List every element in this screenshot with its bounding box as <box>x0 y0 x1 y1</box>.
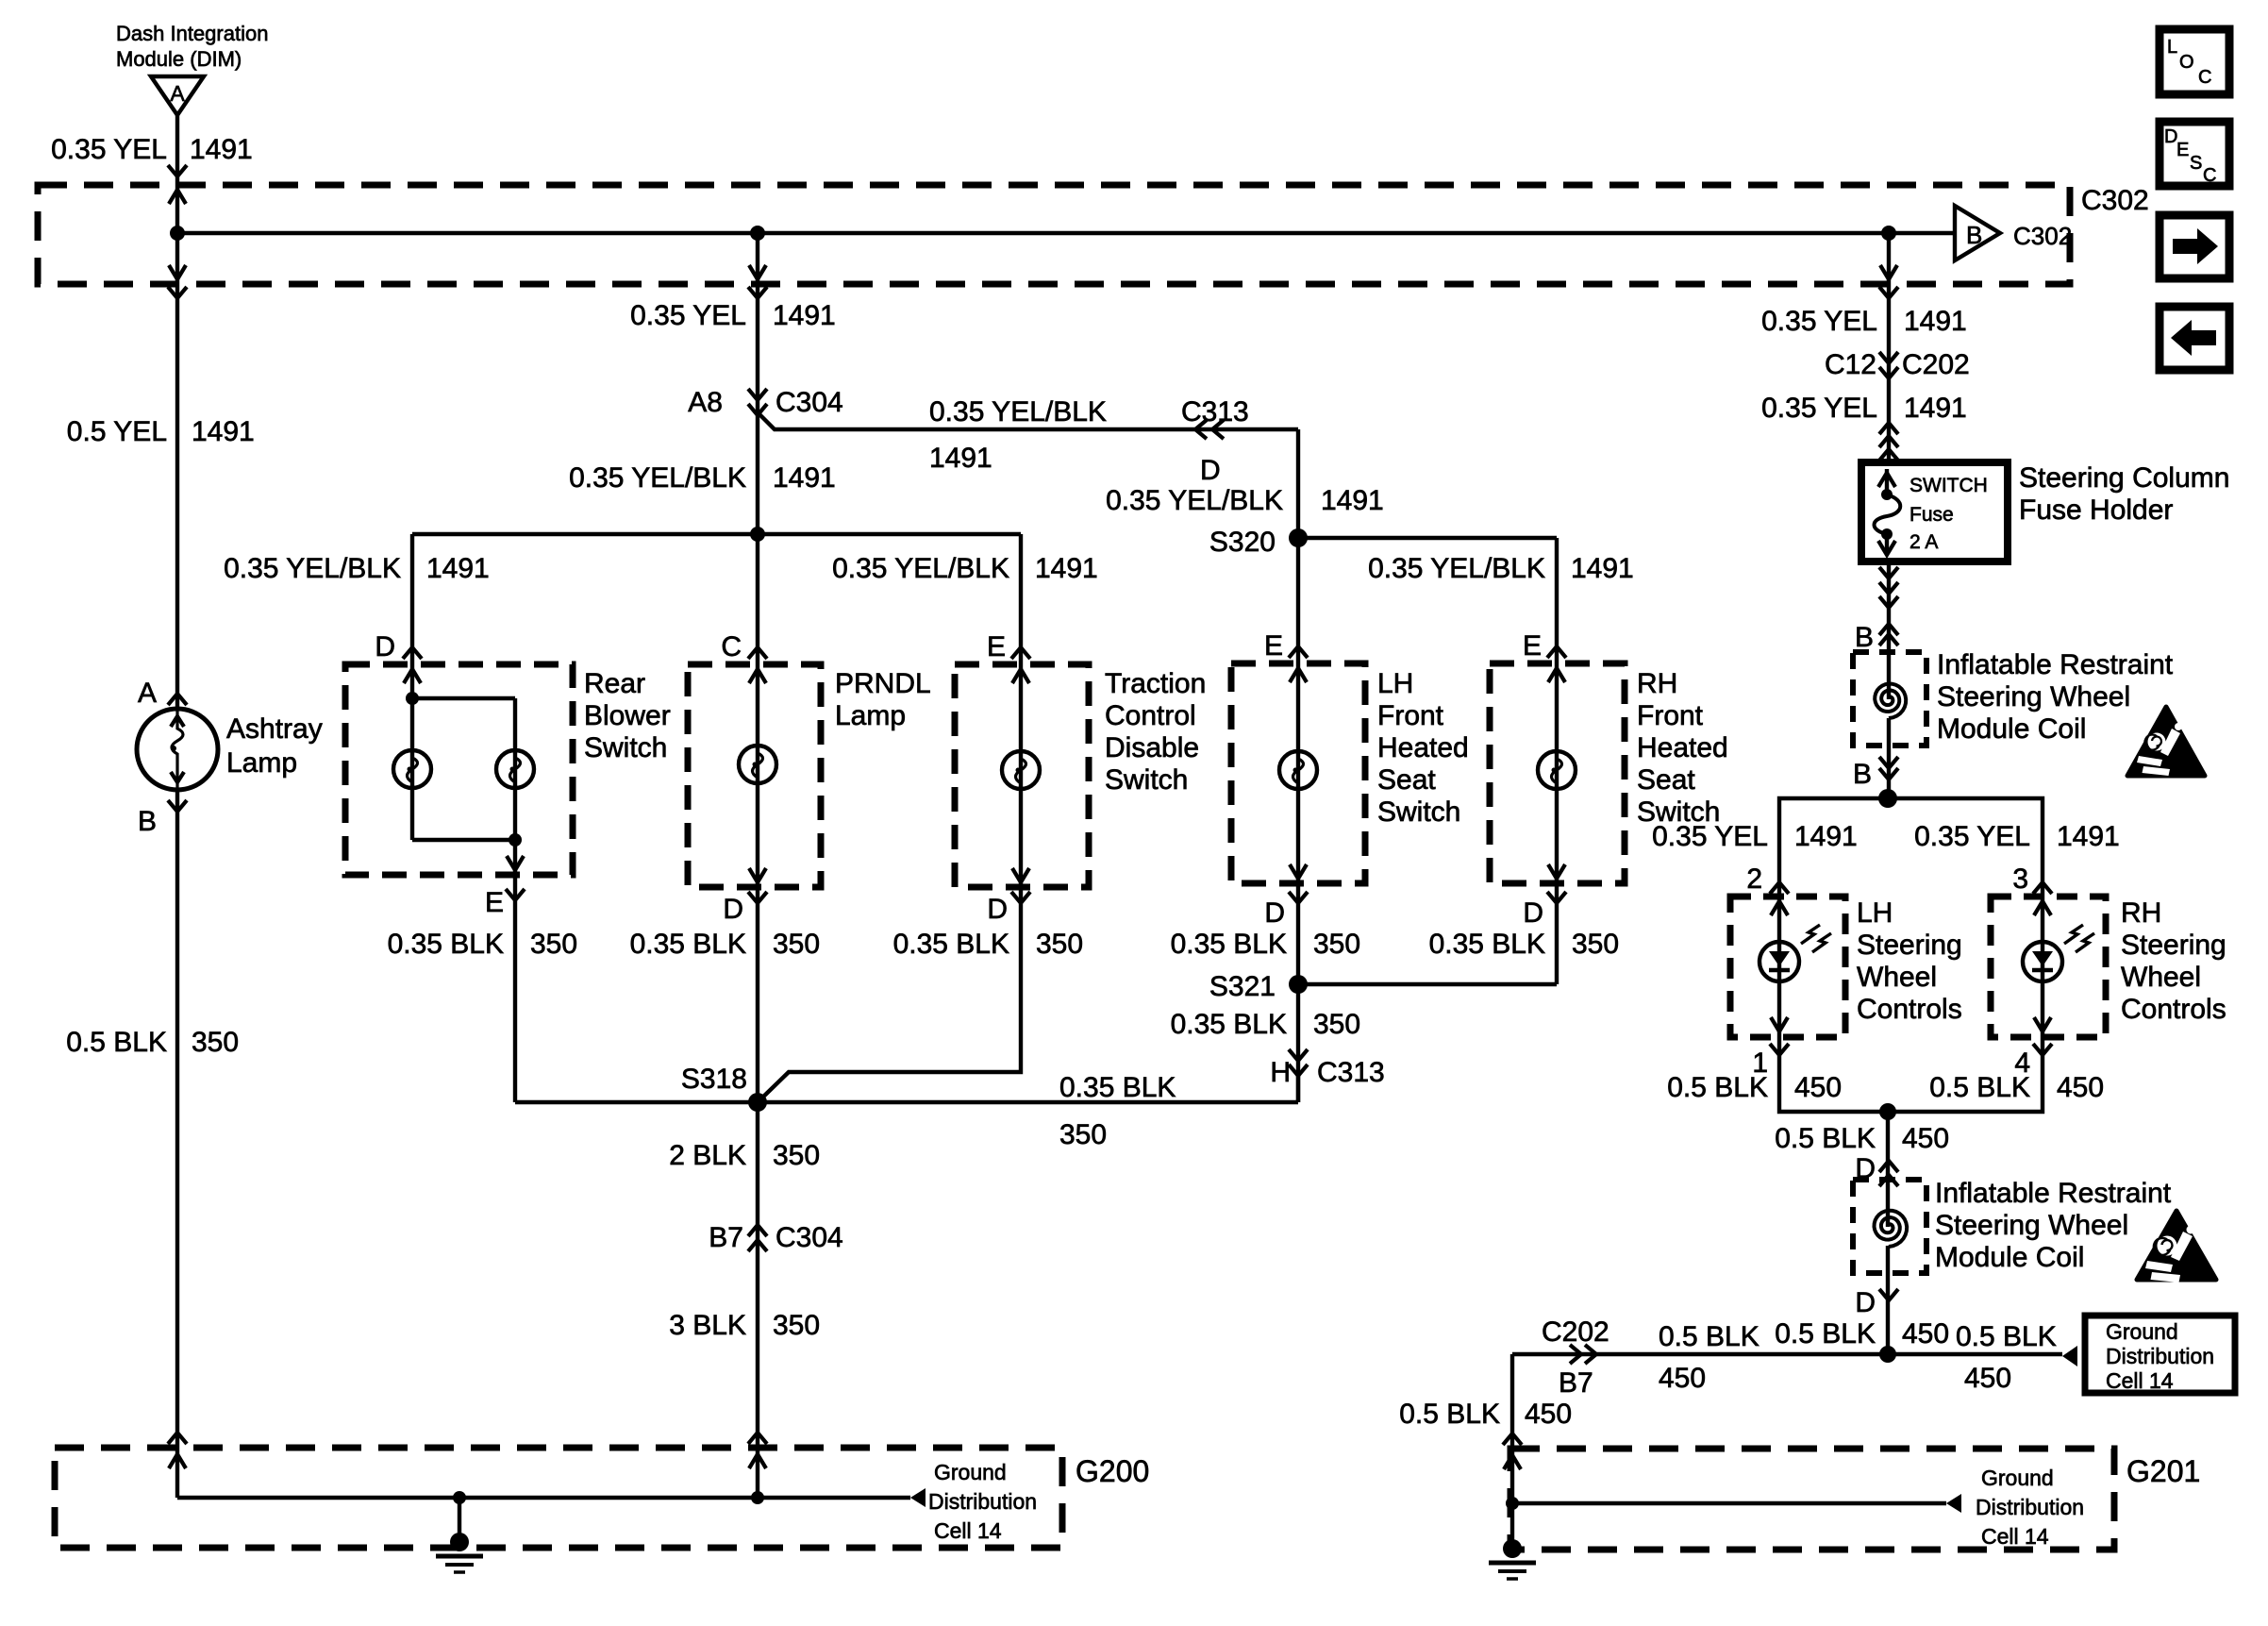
node G200 center join <box>751 1491 764 1504</box>
inflatable restraint coil box top <box>1853 652 1926 746</box>
svg-text:0.35 BLK: 0.35 BLK <box>1059 1072 1176 1103</box>
svg-text:0.5 BLK: 0.5 BLK <box>1667 1072 1768 1103</box>
svg-text:0.35 BLK: 0.35 BLK <box>893 929 1009 960</box>
traction control disable switch dashed box <box>955 664 1089 887</box>
svg-text:0.35 YEL: 0.35 YEL <box>1761 393 1877 424</box>
connector triangle A (DIM pin A) <box>151 76 204 115</box>
svg-text:Controls: Controls <box>2121 994 2226 1025</box>
wire through RH control <box>2041 897 2044 1037</box>
chevron below C302 at x803 <box>748 287 767 298</box>
svg-text:S320: S320 <box>1209 527 1276 558</box>
wire through PRNDL <box>756 664 759 887</box>
wire entry G200 left <box>175 1448 179 1498</box>
wire C313 down to S320 <box>1296 429 1300 538</box>
svg-text:H: H <box>1270 1057 1291 1088</box>
node junction right branch <box>1881 226 1896 241</box>
svg-text:Control: Control <box>1105 700 1196 731</box>
svg-text:1491: 1491 <box>929 443 992 474</box>
svg-text:Heated: Heated <box>1377 732 1469 763</box>
wire long ground bus to S318 <box>515 1100 1298 1104</box>
svg-text:Seat: Seat <box>1377 764 1436 796</box>
svg-text:C313: C313 <box>1181 396 1249 427</box>
svg-text:1491: 1491 <box>190 134 253 165</box>
wire bus G201 <box>1512 1501 1946 1505</box>
PRNDL lamp dashed box <box>688 664 821 887</box>
svg-text:Module Coil: Module Coil <box>1937 713 2086 745</box>
node ground bus junction right <box>1879 1346 1896 1363</box>
svg-text:B: B <box>1855 622 1874 653</box>
connector chevron into C302 <box>168 165 187 176</box>
svg-text:0.35 BLK: 0.35 BLK <box>1171 1009 1287 1040</box>
lamp PRNDL <box>739 746 776 783</box>
LED LH control <box>1759 942 1799 981</box>
LOC legend box <box>2160 29 2229 94</box>
wire down to RH heated seat E <box>1555 538 1559 663</box>
ashtray lamp <box>137 709 218 790</box>
wire traction D down <box>758 887 1021 1102</box>
svg-text:G200: G200 <box>1076 1454 1149 1488</box>
svg-text:350: 350 <box>1313 1009 1360 1040</box>
svg-text:1491: 1491 <box>1321 485 1384 516</box>
svg-text:Module Coil: Module Coil <box>1935 1242 2084 1273</box>
svg-text:2 BLK: 2 BLK <box>669 1140 746 1171</box>
wire entry G200 center <box>756 1448 759 1498</box>
svg-text:Cell 14: Cell 14 <box>934 1518 1002 1543</box>
svg-text:450: 450 <box>1902 1318 1949 1349</box>
wire C302 to fuse holder <box>1887 284 1891 462</box>
svg-text:Steering Wheel: Steering Wheel <box>1937 681 2130 712</box>
svg-text:C: C <box>2198 67 2211 88</box>
svg-text:C304: C304 <box>775 387 843 418</box>
svg-text:450: 450 <box>1525 1399 1572 1430</box>
fuse SWITCH Fuse 2A <box>1885 469 1889 492</box>
wire controls to junction <box>1779 1037 2043 1112</box>
svg-text:E: E <box>2176 140 2189 160</box>
svg-text:Distribution: Distribution <box>2106 1344 2214 1368</box>
connector C313 chevrons <box>1195 420 1207 439</box>
ground symbol G201 <box>1510 1503 1514 1545</box>
lamp LH seat <box>1279 751 1317 789</box>
connector C302 dashed box <box>38 185 2070 284</box>
svg-text:D: D <box>375 631 395 662</box>
svg-text:Inflatable Restraint: Inflatable Restraint <box>1935 1178 2172 1209</box>
RH steering wheel controls dashed box <box>1991 897 2106 1037</box>
svg-text:B7: B7 <box>709 1222 743 1253</box>
node splice of branch <box>750 527 765 542</box>
svg-text:0.35 YEL/BLK: 0.35 YEL/BLK <box>1106 485 1283 516</box>
coil spiral top <box>1875 684 1906 719</box>
svg-text:0.35 YEL/BLK: 0.35 YEL/BLK <box>224 553 401 584</box>
node junction at DIM wire <box>175 185 179 284</box>
svg-text:C302: C302 <box>2013 222 2072 250</box>
wire S321 to RH seat wire <box>1298 982 1557 986</box>
svg-text:D: D <box>723 894 743 925</box>
svg-text:Module (DIM): Module (DIM) <box>116 47 242 71</box>
LED RH control <box>2023 942 2062 981</box>
svg-text:LH: LH <box>1857 897 1893 929</box>
wire branch right to traction switch <box>758 532 1021 536</box>
wire bottom inner rear blower <box>412 838 515 842</box>
svg-text:O: O <box>2179 52 2194 73</box>
svg-text:Blower: Blower <box>584 700 671 731</box>
svg-text:350: 350 <box>773 1310 820 1341</box>
LH steering wheel controls dashed box <box>1730 897 1845 1037</box>
wire fuse to coil <box>1887 562 1891 699</box>
svg-text:E: E <box>987 631 1006 662</box>
svg-text:Inflatable Restraint: Inflatable Restraint <box>1937 649 2174 680</box>
svg-text:Switch: Switch <box>1105 764 1188 796</box>
wire down to rear blower D <box>410 534 414 664</box>
node top junction rear blower <box>406 692 419 705</box>
svg-text:1491: 1491 <box>773 300 836 331</box>
node splice steering wheel controls feed <box>1878 789 1897 808</box>
node G201 junction <box>1506 1497 1519 1510</box>
svg-text:450: 450 <box>2057 1072 2104 1103</box>
svg-text:3: 3 <box>2012 863 2028 895</box>
svg-text:0.35 YEL/BLK: 0.35 YEL/BLK <box>569 462 746 494</box>
lamp RH seat <box>1538 751 1576 789</box>
svg-text:C: C <box>2203 165 2216 186</box>
svg-text:B7: B7 <box>1559 1367 1593 1399</box>
svg-text:Controls: Controls <box>1857 994 1962 1025</box>
svg-text:RH: RH <box>2121 897 2161 929</box>
svg-text:350: 350 <box>773 1140 820 1171</box>
svg-text:PRNDL: PRNDL <box>835 668 931 699</box>
wire branch left to rear blower <box>412 532 758 536</box>
svg-text:1491: 1491 <box>2057 821 2120 852</box>
svg-text:S318: S318 <box>681 1064 747 1095</box>
wire C302 to A8 C304 <box>756 284 759 415</box>
svg-text:1491: 1491 <box>1035 553 1098 584</box>
svg-text:Steering: Steering <box>2121 930 2226 961</box>
wire A8 to C313 <box>758 412 1298 429</box>
svg-text:A8: A8 <box>688 387 723 418</box>
svg-text:Steering Column: Steering Column <box>2019 462 2229 494</box>
svg-text:D: D <box>1264 897 1285 929</box>
svg-text:B: B <box>138 806 157 837</box>
inflatable restraint coil box bottom <box>1853 1180 1926 1273</box>
svg-text:0.35 BLK: 0.35 BLK <box>388 929 504 960</box>
svg-text:1491: 1491 <box>192 416 255 447</box>
svg-text:C302: C302 <box>2081 185 2149 216</box>
svg-text:Front: Front <box>1637 700 1704 731</box>
svg-text:D: D <box>1523 897 1543 929</box>
svg-text:B: B <box>1966 221 1982 249</box>
left arrow legend box <box>2160 307 2229 370</box>
svg-text:Ground: Ground <box>2106 1319 2178 1344</box>
node bottom junction rear blower <box>509 833 522 847</box>
warning triangle top <box>2127 707 2205 776</box>
lamp traction <box>1002 751 1040 789</box>
svg-text:C: C <box>721 631 742 662</box>
svg-text:3 BLK: 3 BLK <box>669 1310 746 1341</box>
svg-text:2 A: 2 A <box>1909 531 1938 553</box>
steering column fuse holder box <box>1861 462 2008 562</box>
LED flash arrows LH <box>1801 925 1831 952</box>
wire C202 corner down to G201 <box>1510 1354 1514 1449</box>
svg-text:Rear: Rear <box>584 668 645 699</box>
svg-text:E: E <box>1264 630 1283 662</box>
svg-text:0.35 YEL/BLK: 0.35 YEL/BLK <box>929 396 1107 427</box>
svg-text:0.5 BLK: 0.5 BLK <box>66 1027 167 1058</box>
svg-text:Wheel: Wheel <box>2121 962 2201 993</box>
chevrons at fuse feed <box>1879 423 1898 434</box>
wire LH seat D down through S321 <box>1296 883 1300 1102</box>
svg-text:E: E <box>485 887 504 918</box>
svg-text:D: D <box>987 894 1008 925</box>
svg-text:1491: 1491 <box>426 553 490 584</box>
svg-text:350: 350 <box>530 929 577 960</box>
chevron below C302 at x188 <box>168 287 187 298</box>
svg-text:450: 450 <box>1902 1123 1949 1154</box>
svg-text:S321: S321 <box>1209 971 1276 1002</box>
coil spiral bottom <box>1875 1211 1908 1247</box>
svg-text:Fuse: Fuse <box>1909 504 1954 526</box>
node G200 ground tap <box>453 1491 466 1504</box>
wire RH seat D down to S321 <box>1555 883 1559 984</box>
node controls ground junction <box>1879 1103 1896 1120</box>
svg-text:Dash Integration: Dash Integration <box>116 22 268 45</box>
svg-text:0.35 YEL: 0.35 YEL <box>1652 821 1768 852</box>
svg-text:C313: C313 <box>1317 1057 1385 1088</box>
svg-text:0.35 BLK: 0.35 BLK <box>1171 929 1287 960</box>
svg-text:0.35 YEL: 0.35 YEL <box>51 134 167 165</box>
LH front heated seat switch dashed box <box>1231 663 1365 883</box>
svg-text:Steering: Steering <box>1857 930 1962 961</box>
svg-text:Seat: Seat <box>1637 764 1695 796</box>
svg-text:S: S <box>2190 153 2202 174</box>
svg-text:Distribution: Distribution <box>928 1489 1037 1514</box>
svg-text:0.5 BLK: 0.5 BLK <box>1399 1399 1500 1430</box>
svg-text:Steering Wheel: Steering Wheel <box>1935 1210 2128 1241</box>
svg-text:0.5 BLK: 0.5 BLK <box>1775 1318 1876 1349</box>
ground symbol G200 <box>458 1498 461 1538</box>
svg-text:1491: 1491 <box>1904 306 1967 337</box>
svg-text:Fuse Holder: Fuse Holder <box>2019 495 2173 526</box>
wire branch to LH/RH steering wheel controls <box>1779 798 2043 897</box>
svg-text:350: 350 <box>1036 929 1083 960</box>
svg-text:Switch: Switch <box>584 732 667 763</box>
arrow to ground distribution cell 14 (G201) <box>1946 1494 1961 1513</box>
arrow to ground distribution cell 14 <box>910 1488 926 1507</box>
svg-text:0.35 YEL: 0.35 YEL <box>1914 821 2030 852</box>
svg-text:0.5 BLK: 0.5 BLK <box>1659 1321 1759 1352</box>
ground distribution G201 dashed box <box>1510 1449 2114 1550</box>
svg-text:2: 2 <box>1746 863 1762 895</box>
svg-text:Ground: Ground <box>934 1460 1007 1484</box>
wire entry G201 <box>1510 1449 1514 1503</box>
wire ashtray lamp to G200 <box>175 790 179 1448</box>
svg-text:0.35 YEL: 0.35 YEL <box>1761 306 1877 337</box>
svg-text:350: 350 <box>773 929 820 960</box>
chevron into G200 left <box>168 1433 187 1444</box>
wire inside C302 <box>177 231 1955 235</box>
DESC legend box <box>2160 122 2229 186</box>
svg-text:Wheel: Wheel <box>1857 962 1937 993</box>
svg-text:350: 350 <box>192 1027 239 1058</box>
svg-text:1491: 1491 <box>1571 553 1634 584</box>
svg-text:Ashtray: Ashtray <box>226 713 323 745</box>
LED flash arrows RH <box>2064 925 2094 952</box>
wire through RH seat switch <box>1555 663 1559 883</box>
rear blower switch dashed box <box>345 664 573 875</box>
svg-text:0.5 BLK: 0.5 BLK <box>1956 1321 2057 1352</box>
svg-text:A: A <box>138 678 157 709</box>
svg-text:SWITCH: SWITCH <box>1909 475 1988 496</box>
svg-text:1491: 1491 <box>773 462 836 494</box>
svg-text:RH: RH <box>1637 668 1677 699</box>
svg-text:0.35 BLK: 0.35 BLK <box>630 929 746 960</box>
svg-text:Heated: Heated <box>1637 732 1728 763</box>
svg-text:450: 450 <box>1794 1072 1842 1103</box>
svg-text:350: 350 <box>1059 1119 1107 1150</box>
svg-text:350: 350 <box>1313 929 1360 960</box>
wire junction to lower coil <box>1886 1112 1890 1227</box>
svg-text:0.35 YEL/BLK: 0.35 YEL/BLK <box>1368 553 1545 584</box>
svg-text:C202: C202 <box>1902 349 1970 380</box>
svg-text:Distribution: Distribution <box>1976 1495 2084 1519</box>
arrow to ground distribution cell 14 right <box>2062 1346 2077 1366</box>
ground distribution cell 14 box <box>2085 1316 2235 1393</box>
svg-text:LH: LH <box>1377 668 1413 699</box>
wire C302 to ashtray lamp <box>175 284 179 709</box>
wire entry rear blower <box>410 664 414 698</box>
svg-text:Lamp: Lamp <box>835 700 906 731</box>
svg-text:0.35 YEL: 0.35 YEL <box>630 300 746 331</box>
wire DIM A to C302 <box>175 115 179 185</box>
lamp rear blower left <box>410 698 414 840</box>
svg-text:C202: C202 <box>1542 1316 1609 1348</box>
connector C202 B7 on ground bus <box>1570 1345 1581 1364</box>
right arrow legend box <box>2160 215 2229 278</box>
svg-text:1491: 1491 <box>1904 393 1967 424</box>
connector B triangle C302 <box>1955 206 2000 260</box>
svg-text:L: L <box>2167 37 2177 58</box>
chevron into G200 center <box>748 1433 767 1444</box>
svg-text:0.35 YEL/BLK: 0.35 YEL/BLK <box>832 553 1009 584</box>
svg-text:Cell 14: Cell 14 <box>2106 1368 2174 1393</box>
wire through LH control <box>1777 897 1781 1037</box>
svg-text:D: D <box>1200 455 1221 486</box>
chevron into G201 <box>1503 1433 1522 1445</box>
wire top inner rear blower <box>412 696 515 700</box>
svg-text:0.5 BLK: 0.5 BLK <box>1929 1072 2030 1103</box>
RH front heated seat switch dashed box <box>1490 663 1625 883</box>
svg-text:0.5 BLK: 0.5 BLK <box>1775 1123 1876 1154</box>
svg-text:B: B <box>1853 759 1872 790</box>
svg-text:1491: 1491 <box>1794 821 1858 852</box>
svg-text:D: D <box>1855 1287 1876 1318</box>
warning triangle bottom <box>2137 1211 2216 1280</box>
wire bus G200 <box>177 1496 910 1500</box>
svg-text:E: E <box>1523 630 1542 662</box>
svg-text:C12: C12 <box>1825 349 1876 380</box>
svg-text:Ground: Ground <box>1981 1466 2054 1490</box>
svg-text:Lamp: Lamp <box>226 747 297 779</box>
wire down to traction E <box>1019 534 1023 664</box>
wire exit rear blower <box>513 840 517 875</box>
wire S320 to RH heated seat <box>1298 536 1557 540</box>
wire S320 down to LH heated seat E <box>1296 538 1300 663</box>
svg-text:G201: G201 <box>2126 1454 2200 1488</box>
svg-text:Switch: Switch <box>1377 796 1460 828</box>
chevron below C302 at x2002 <box>1879 287 1898 298</box>
lamp rear blower right <box>513 698 517 840</box>
node junction at center branch <box>750 226 765 241</box>
wire through LH seat switch <box>1296 663 1300 883</box>
svg-text:450: 450 <box>1964 1363 2011 1394</box>
wire rear blower E down <box>513 875 517 1102</box>
svg-text:Cell 14: Cell 14 <box>1981 1524 2049 1549</box>
wire ground bus right side <box>1512 1352 2062 1356</box>
wire A8 down to junction <box>756 415 759 664</box>
svg-text:0.5 YEL: 0.5 YEL <box>67 416 167 447</box>
svg-text:450: 450 <box>1659 1363 1706 1394</box>
svg-text:350: 350 <box>1572 929 1619 960</box>
svg-text:Disable: Disable <box>1105 732 1199 763</box>
svg-text:0.35 BLK: 0.35 BLK <box>1429 929 1545 960</box>
wire PRNDL D down through S318 to G200 <box>756 887 759 1448</box>
wire through traction switch <box>1019 664 1023 887</box>
svg-text:C304: C304 <box>775 1222 843 1253</box>
svg-text:A: A <box>170 81 185 106</box>
svg-text:Traction: Traction <box>1105 668 1206 699</box>
svg-text:Front: Front <box>1377 700 1444 731</box>
ground distribution G200 dashed box <box>55 1448 1062 1548</box>
